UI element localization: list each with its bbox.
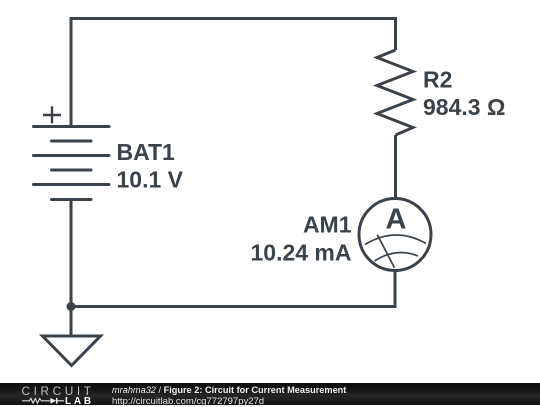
circuitlab logo text CIRCUIT: [22, 384, 95, 398]
resistor R2: [377, 50, 413, 135]
svg-text:10.24 mA: 10.24 mA: [250, 240, 351, 266]
svg-text:10.1 V: 10.1 V: [117, 167, 184, 193]
ground: [43, 336, 101, 366]
svg-text:R2: R2: [423, 67, 452, 93]
node junction (battery/ground/ammeter net): [67, 302, 76, 311]
svg-text:A: A: [386, 203, 407, 235]
battery BAT1 plates: [34, 127, 110, 200]
wire battery top lead: [70, 19, 73, 127]
wire bottom horizontal run: [71, 305, 395, 308]
footer bar: [0, 383, 540, 405]
circuitlab logo text LAB: [65, 396, 94, 407]
ammeter AM1 body: [359, 199, 431, 271]
wire ground lead: [70, 307, 73, 337]
ammeter scale arc small: [375, 252, 419, 261]
ammeter scale arc large: [365, 235, 426, 245]
battery plus sign: [43, 106, 61, 123]
wire ammeter bottom lead: [394, 271, 397, 307]
wire top horizontal run: [71, 17, 396, 20]
ammeter needle: [377, 235, 394, 268]
svg-text:AM1: AM1: [303, 212, 352, 238]
circuitlab logo glyph: resistor zigzag + diode: [20, 397, 66, 406]
footer attribution text: [112, 385, 346, 395]
footer url text: [112, 396, 264, 407]
svg-text:984.3 Ω: 984.3 Ω: [423, 94, 505, 120]
svg-text:BAT1: BAT1: [117, 139, 176, 165]
wire battery bottom lead: [70, 200, 73, 307]
wire resistor to ammeter: [394, 135, 397, 199]
wire resistor top lead: [394, 19, 397, 51]
